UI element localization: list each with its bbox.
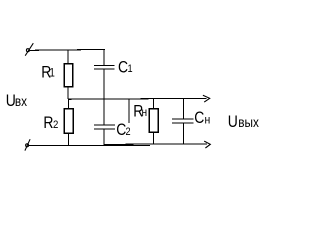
svg-text:2: 2 bbox=[53, 119, 58, 131]
svg-text:вх: вх bbox=[15, 93, 28, 109]
svg-text:2: 2 bbox=[125, 126, 130, 138]
svg-text:н: н bbox=[205, 114, 211, 127]
svg-text:вых: вых bbox=[238, 114, 259, 130]
svg-text:C: C bbox=[194, 109, 204, 127]
svg-text:1: 1 bbox=[128, 64, 133, 76]
svg-text:н: н bbox=[142, 106, 148, 119]
svg-text:C: C bbox=[118, 59, 128, 77]
svg-text:R: R bbox=[43, 114, 53, 132]
svg-text:U: U bbox=[228, 113, 238, 131]
svg-text:1: 1 bbox=[49, 67, 54, 80]
